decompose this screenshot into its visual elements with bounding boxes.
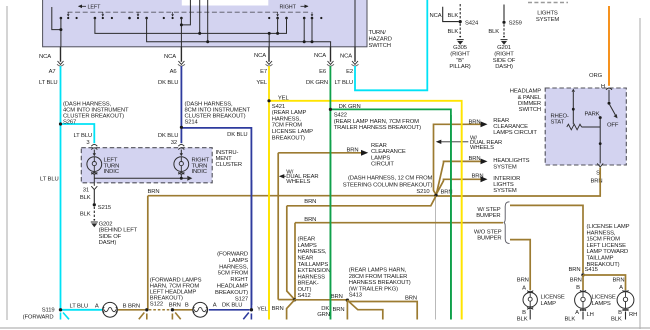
svg-text:BRN: BRN <box>347 148 359 154</box>
svg-text:RHEO-: RHEO- <box>551 113 569 119</box>
svg-text:TURN/: TURN/ <box>369 30 387 36</box>
node bus junction <box>180 177 183 180</box>
wire BRN S210 to interior lights system <box>437 173 521 194</box>
svg-text:YEL: YEL <box>256 80 268 86</box>
svg-text:LICENSE: LICENSE <box>541 295 565 301</box>
svg-text:INDIC: INDIC <box>192 169 207 175</box>
svg-text:DASH): DASH) <box>99 240 117 246</box>
svg-text:NCA: NCA <box>164 54 176 60</box>
wire stubs below junction <box>172 313 180 320</box>
frame bottom gray line <box>0 327 650 329</box>
svg-text:A: A <box>619 285 623 291</box>
svg-text:DK BLU: DK BLU <box>227 132 247 138</box>
svg-text:S421: S421 <box>272 104 285 110</box>
svg-text:EXTENSION: EXTENSION <box>298 268 331 274</box>
wire stubs below S122 <box>139 313 147 320</box>
wire BRN S415 to license lamps <box>583 275 626 290</box>
node S415 <box>569 224 630 277</box>
wire BRN w/o step bumper to license lamp <box>510 240 530 290</box>
node S210 <box>343 175 453 197</box>
svg-text:(W/ TRAILER PKG): (W/ TRAILER PKG) <box>349 287 398 293</box>
wire BLK to G201 <box>503 24 505 35</box>
lamp front park right <box>185 302 217 317</box>
svg-text:TRAILER HARNESS BREAKOUT): TRAILER HARNESS BREAKOUT) <box>334 125 421 131</box>
label w/ dual rear wheels left <box>279 169 319 185</box>
svg-text:NCA: NCA <box>340 54 352 60</box>
svg-text:WHEELS: WHEELS <box>470 145 494 151</box>
svg-text:A: A <box>95 303 99 309</box>
pin A6 <box>158 47 185 86</box>
node S422 <box>329 108 332 111</box>
svg-text:LIGHTS: LIGHTS <box>537 10 558 16</box>
node S424 <box>459 20 462 23</box>
svg-text:3: 3 <box>86 140 89 146</box>
svg-text:HEADLAMP: HEADLAMP <box>217 284 248 290</box>
svg-text:(FORWARD: (FORWARD <box>217 252 248 258</box>
svg-text:LH: LH <box>587 312 594 318</box>
svg-text:LAMPS: LAMPS <box>592 301 611 307</box>
node S214 <box>180 126 183 129</box>
svg-text:BREAK-: BREAK- <box>298 281 319 287</box>
wire BRN step bumper feed <box>295 217 503 298</box>
wire DK BLU from A6 <box>181 66 251 310</box>
svg-text:CLEARANCE: CLEARANCE <box>371 149 406 155</box>
wire internal bus 2 to E6 <box>147 0 331 47</box>
svg-text:LT BLU: LT BLU <box>334 80 353 86</box>
wire BRN S412 riser to S210 <box>287 196 436 300</box>
svg-text:BRN: BRN <box>517 277 529 283</box>
svg-text:HARNESS: HARNESS <box>298 274 326 280</box>
headlamp and panel dimmer switch box <box>545 88 626 165</box>
svg-text:G305: G305 <box>453 45 467 51</box>
wire BRN to right front lamp <box>174 309 193 311</box>
svg-text:BLK: BLK <box>448 13 459 19</box>
svg-text:(RIGHT: (RIGHT <box>494 51 514 57</box>
svg-text:BUMPER: BUMPER <box>476 213 500 219</box>
svg-text:LT BLU: LT BLU <box>70 303 89 309</box>
svg-text:NCA: NCA <box>254 53 266 59</box>
svg-text:BRN: BRN <box>469 156 481 162</box>
svg-text:W/O STEP: W/O STEP <box>474 229 502 235</box>
svg-text:W/ STEP: W/ STEP <box>477 207 500 213</box>
wire BLK to G305 <box>459 24 461 36</box>
svg-text:DIMMER: DIMMER <box>518 101 541 107</box>
svg-text:BRN: BRN <box>331 294 343 300</box>
svg-text:S259: S259 <box>509 21 522 27</box>
svg-text:(REAR LAMP HARN, 7CM FROM: (REAR LAMP HARN, 7CM FROM <box>334 119 419 125</box>
wire BRN S210 to rear clearance callout <box>434 118 538 194</box>
pin A7 <box>39 47 64 86</box>
wire ORG headlamp feed <box>608 6 610 86</box>
node S259 <box>502 21 505 24</box>
wire BRN S412 to S413 <box>295 299 348 301</box>
label turn/hazard switch <box>369 30 392 49</box>
svg-text:OFF: OFF <box>607 123 619 129</box>
svg-text:BRN: BRN <box>469 120 481 126</box>
wire DK GRN from E6 <box>330 66 451 320</box>
frame left gray line <box>6 6 8 320</box>
svg-text:B: B <box>522 310 526 316</box>
pin H connector <box>606 88 612 90</box>
svg-text:HARNESS,: HARNESS, <box>219 264 248 270</box>
svg-text:S210: S210 <box>416 189 430 195</box>
svg-text:LAMP: LAMP <box>541 301 557 307</box>
svg-text:E2: E2 <box>346 69 353 75</box>
svg-text:E7: E7 <box>260 69 267 75</box>
svg-text:LIGHTS: LIGHTS <box>493 182 514 188</box>
svg-text:PILLAR): PILLAR) <box>449 64 470 70</box>
svg-text:(BEHIND LEFT: (BEHIND LEFT <box>99 228 138 234</box>
svg-text:& PANEL: & PANEL <box>518 95 542 101</box>
svg-text:TAILLAMPS: TAILLAMPS <box>298 262 329 268</box>
svg-text:BLK: BLK <box>448 29 459 35</box>
svg-text:LEFT: LEFT <box>88 5 102 11</box>
wire BRN dimmer S to S210 <box>438 168 601 197</box>
svg-text:S413: S413 <box>349 293 362 299</box>
svg-text:31: 31 <box>83 188 89 194</box>
svg-text:(REAR LAMPS HARN,: (REAR LAMPS HARN, <box>349 268 407 274</box>
wire BRN S413 diagonal branch <box>347 300 382 319</box>
wire DK BLU lamp to S127 <box>209 303 250 310</box>
switch lever H to OFF <box>607 90 619 129</box>
pin E7 <box>254 47 272 86</box>
svg-text:NCA: NCA <box>39 54 51 60</box>
svg-text:S214: S214 <box>185 119 199 125</box>
svg-text:S127: S127 <box>235 296 248 302</box>
svg-text:LT BLU: LT BLU <box>73 133 92 139</box>
wire LT BLU from E2 up to top <box>355 0 427 90</box>
svg-text:A: A <box>522 286 526 292</box>
svg-text:(REAR LAMP: (REAR LAMP <box>272 110 307 116</box>
page fold gray line below S210 <box>435 196 437 320</box>
wire BLK to G202 <box>93 207 95 219</box>
svg-text:INTERIOR: INTERIOR <box>493 176 520 182</box>
wire BLK to S259 <box>503 5 505 21</box>
svg-text:NCA: NCA <box>314 53 326 59</box>
node S412 <box>278 237 330 302</box>
svg-text:(FORWARD: (FORWARD <box>23 315 54 321</box>
svg-text:HARNESS,: HARNESS, <box>298 249 327 255</box>
svg-text:DK BLU: DK BLU <box>158 80 178 86</box>
movable contact arrows <box>67 12 313 16</box>
svg-text:ORG: ORG <box>589 73 603 79</box>
svg-text:REAR: REAR <box>371 143 387 149</box>
rheostat <box>551 89 601 130</box>
svg-text:32: 32 <box>171 140 177 146</box>
wire cluster ground bus <box>94 174 192 186</box>
turn/hazard switch box <box>43 0 367 47</box>
wire A7 internal <box>52 7 61 47</box>
svg-text:SWITCH: SWITCH <box>369 43 391 49</box>
svg-text:NEAR: NEAR <box>298 256 314 262</box>
svg-text:CIRCUIT: CIRCUIT <box>371 162 394 168</box>
wire E2 internal <box>354 0 356 47</box>
lamp license lamp LH <box>565 277 616 322</box>
svg-text:BRN: BRN <box>569 267 581 273</box>
svg-text:DK GRN: DK GRN <box>339 104 361 110</box>
svg-text:STAT: STAT <box>551 120 565 126</box>
ground G201 <box>493 40 516 71</box>
svg-text:BLK: BLK <box>611 316 622 322</box>
svg-text:YEL: YEL <box>257 306 269 312</box>
svg-text:TAILLAMP: TAILLAMP <box>587 256 614 262</box>
svg-text:HEADLIGHTS: HEADLIGHTS <box>493 158 529 164</box>
svg-text:S424: S424 <box>465 20 479 26</box>
pin S connector <box>597 163 603 167</box>
wire BRN S413 down branch <box>333 300 348 319</box>
svg-text:INSTRU-: INSTRU- <box>216 150 239 156</box>
svg-text:A: A <box>213 303 217 309</box>
svg-text:LICENSE: LICENSE <box>592 295 616 301</box>
svg-text:BREAKOUT): BREAKOUT) <box>587 262 620 268</box>
wire BLK above S424 <box>459 4 461 20</box>
wire BRN dual rear wheels branch <box>277 153 279 300</box>
svg-text:LICENSE LAMP: LICENSE LAMP <box>272 129 313 135</box>
wire internal bus 1 to E7 <box>95 0 287 47</box>
svg-text:STEERING COLUMN BREAKOUT): STEERING COLUMN BREAKOUT) <box>343 182 433 188</box>
svg-text:E6: E6 <box>319 69 326 75</box>
svg-text:BRN: BRN <box>405 296 417 302</box>
svg-text:HARNESS,: HARNESS, <box>272 116 301 122</box>
svg-text:DK BLU: DK BLU <box>222 303 242 309</box>
wire BLK to S215 <box>93 190 95 204</box>
svg-text:BRN: BRN <box>333 307 345 313</box>
svg-text:28CM FROM TRAILER: 28CM FROM TRAILER <box>349 274 408 280</box>
node S421 <box>267 99 270 102</box>
lamp right turn indicator <box>174 150 189 175</box>
pin E2 <box>334 47 358 86</box>
wire BRN S412 down branch <box>272 300 295 320</box>
ground G202 <box>91 221 138 246</box>
svg-text:LAMPS: LAMPS <box>371 155 390 161</box>
svg-text:BRN: BRN <box>613 277 625 283</box>
wire LT BLU from A7 to S119 <box>61 66 103 310</box>
svg-text:BRN: BRN <box>304 217 316 223</box>
svg-text:BLK: BLK <box>565 316 576 322</box>
svg-text:BLK: BLK <box>80 212 91 218</box>
switch fixed contacts row <box>60 17 323 20</box>
svg-text:HAZARD: HAZARD <box>369 37 392 43</box>
svg-text:(DASH HARNESS,: (DASH HARNESS, <box>185 101 233 107</box>
svg-text:SWITCH: SWITCH <box>519 107 541 113</box>
svg-text:BREAKOUT): BREAKOUT) <box>272 135 305 141</box>
lamp left turn indicator <box>87 150 102 175</box>
svg-text:RIGHT: RIGHT <box>280 5 297 11</box>
svg-text:BREAKOUT): BREAKOUT) <box>215 290 248 296</box>
wire A6 internal <box>181 0 190 47</box>
svg-text:B: B <box>576 285 580 291</box>
svg-text:HEADLAMP: HEADLAMP <box>510 89 541 95</box>
svg-text:DASH): DASH) <box>495 64 513 70</box>
node bus1 junctions <box>198 32 279 35</box>
wire BRN lamp to S122 <box>118 303 145 310</box>
svg-text:S122: S122 <box>150 302 163 308</box>
switch internal dashed track <box>68 11 309 13</box>
node S413 <box>331 268 411 302</box>
svg-text:SIDE OF: SIDE OF <box>493 58 516 64</box>
svg-text:RIGHT: RIGHT <box>230 277 248 283</box>
svg-text:CLUSTER: CLUSTER <box>216 162 242 168</box>
svg-text:MENT: MENT <box>216 156 233 162</box>
svg-text:BRN: BRN <box>472 173 484 179</box>
wire BRN rear clearance callout left <box>278 143 406 168</box>
svg-text:S422: S422 <box>334 113 347 119</box>
label w/ dual rear wheels right <box>436 135 502 151</box>
svg-text:S267: S267 <box>63 119 76 125</box>
svg-text:8CM INTO INSTRUMENT: 8CM INTO INSTRUMENT <box>185 108 251 114</box>
lamp license lamp RH <box>611 277 637 322</box>
svg-text:GRN: GRN <box>317 312 330 318</box>
svg-text:A: A <box>575 310 579 316</box>
svg-text:BRN: BRN <box>570 277 582 283</box>
svg-text:LT BLU: LT BLU <box>40 176 59 182</box>
svg-text:HARNESS BREAKOUT): HARNESS BREAKOUT) <box>349 280 411 286</box>
svg-text:DK BLU: DK BLU <box>158 133 178 139</box>
wire NCA to S424 <box>443 7 459 22</box>
svg-text:BRN: BRN <box>148 189 160 195</box>
svg-text:B: B <box>185 303 189 309</box>
node front harness junction <box>169 303 181 312</box>
node S267 <box>59 122 62 125</box>
wire BRN S122 corner to S210 <box>148 189 437 310</box>
svg-text:LAMP TOWARD: LAMP TOWARD <box>587 249 629 255</box>
svg-text:HARNESS,: HARNESS, <box>587 230 616 236</box>
svg-text:A6: A6 <box>170 69 177 75</box>
instrument cluster box <box>81 148 212 183</box>
svg-text:BRN: BRN <box>169 303 181 309</box>
label instrument cluster <box>216 150 242 168</box>
svg-text:BRN: BRN <box>304 199 316 205</box>
node S119 <box>23 308 63 321</box>
svg-text:YEL: YEL <box>278 95 290 101</box>
node A6 internal junction <box>180 23 183 26</box>
LEFT direction label <box>78 5 101 11</box>
svg-text:PARK: PARK <box>585 112 600 118</box>
node PARK contact <box>599 116 602 119</box>
svg-text:5CM FROM: 5CM FROM <box>218 271 248 277</box>
node S127 <box>215 252 253 312</box>
svg-text:LEFT LICENSE: LEFT LICENSE <box>587 243 627 249</box>
svg-text:(DASH HARNESS, 12 CM FROM: (DASH HARNESS, 12 CM FROM <box>348 175 433 181</box>
step bumper brace <box>504 202 510 244</box>
svg-text:S412: S412 <box>298 293 311 299</box>
svg-text:A7: A7 <box>49 69 56 75</box>
wire stubs below S127 <box>243 313 251 320</box>
svg-text:WHEELS: WHEELS <box>286 179 310 185</box>
lamp front park left <box>95 302 127 317</box>
svg-text:BLK: BLK <box>488 29 499 35</box>
svg-text:S119: S119 <box>42 308 55 314</box>
svg-text:BRN: BRN <box>272 306 284 312</box>
lamp license lamp single <box>517 277 565 322</box>
svg-text:15CM FROM: 15CM FROM <box>587 237 621 243</box>
svg-text:RH: RH <box>629 312 637 318</box>
svg-text:SIDE OF: SIDE OF <box>99 234 122 240</box>
pin 32 connector <box>178 144 184 149</box>
svg-text:B: B <box>618 310 622 316</box>
node A7 internal junction <box>59 28 62 31</box>
node S122 <box>145 278 201 312</box>
svg-text:(RIGHT: (RIGHT <box>450 51 470 57</box>
svg-text:NCA: NCA <box>430 13 442 19</box>
svg-text:(REAR: (REAR <box>298 237 316 243</box>
wire stubs below S119 <box>61 313 70 320</box>
node bus2 junctions <box>206 40 313 43</box>
svg-text:LAMPS: LAMPS <box>298 243 317 249</box>
svg-text:SYSTEM: SYSTEM <box>493 164 517 170</box>
svg-text:S215: S215 <box>98 205 111 211</box>
pin 3 connector <box>91 144 97 149</box>
svg-text:BUMPER: BUMPER <box>477 236 501 242</box>
svg-text:BLK: BLK <box>517 316 528 322</box>
svg-text:(DASH HARNESS,: (DASH HARNESS, <box>63 101 111 107</box>
frame right gray line <box>639 18 641 329</box>
pin E6 <box>306 47 334 86</box>
svg-text:BRN: BRN <box>128 303 140 309</box>
svg-text:G202: G202 <box>99 221 113 227</box>
node S215 <box>93 203 96 206</box>
svg-text:LT BLU: LT BLU <box>39 80 58 86</box>
node interior lights system callout <box>528 3 568 23</box>
svg-text:7CM FROM: 7CM FROM <box>272 123 302 129</box>
svg-text:“B”: “B” <box>456 58 464 64</box>
ground G305 <box>449 40 470 71</box>
wire BRN S413 right branch <box>347 296 417 320</box>
wire BRN w/ step bumper to S415 <box>510 205 583 273</box>
svg-text:BLK: BLK <box>80 195 91 201</box>
svg-text:G201: G201 <box>497 45 511 51</box>
svg-text:(LICENSE LAMP: (LICENSE LAMP <box>587 224 630 230</box>
svg-text:SYSTEM: SYSTEM <box>493 188 517 194</box>
wire overlay colored verticals on top of crossings <box>251 110 461 320</box>
svg-text:DK GRN: DK GRN <box>306 80 328 86</box>
svg-text:LAMPS: LAMPS <box>229 258 248 264</box>
RIGHT direction label <box>280 5 309 11</box>
wire YEL from E7 <box>269 66 462 320</box>
wire PARK to pin S <box>599 118 602 164</box>
svg-text:SYSTEM: SYSTEM <box>536 17 560 23</box>
svg-text:B: B <box>123 303 127 309</box>
wire BRN S210 to headlights system <box>437 156 530 194</box>
wire BRN dashed segment <box>149 309 170 311</box>
svg-text:4CM INTO INSTRUMENT: 4CM INTO INSTRUMENT <box>63 108 129 114</box>
pin 31 connector <box>91 186 97 189</box>
svg-text:INDIC: INDIC <box>104 169 119 175</box>
svg-text:LAMPS CIRCUIT: LAMPS CIRCUIT <box>493 130 537 136</box>
